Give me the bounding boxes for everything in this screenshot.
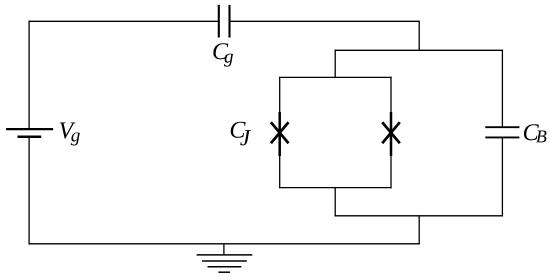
capacitor Cg (gate capacitor, two vertical plates in top bus) <box>219 5 230 38</box>
wire: SQUID loop right side <box>390 77 392 187</box>
wire: middle box right side lower (from C_B bottom plate) <box>501 138 503 216</box>
josephson junction J2 (right, thick electrode segment) <box>390 112 393 156</box>
label Cg <box>213 43 233 66</box>
wire: middle box top side <box>335 49 502 51</box>
wire: stub from middle box top down to SQUID loop top <box>334 50 336 77</box>
wire: left rail upper (top corner down to battery + plate) <box>28 21 30 128</box>
josephson junction J1 (left, thick electrode segment) <box>278 112 281 156</box>
label CB <box>524 124 547 142</box>
label Vg <box>60 122 80 145</box>
wire: SQUID loop left side <box>279 77 281 187</box>
capacitor CB (two horizontal plates in middle box right side) <box>485 127 519 137</box>
wire: top bus right segment (C_g right plate to right drop) <box>230 20 419 22</box>
josephson junction J2 cross <box>382 122 400 143</box>
battery Vg (voltage source, long plate over short plate) <box>6 129 53 137</box>
ground symbol stub <box>223 244 225 255</box>
wire: middle box right side upper (to C_B top plate) <box>501 50 503 126</box>
wire: left rail lower (battery - plate down to bottom corner) <box>28 138 30 244</box>
wire: right drop upper (top bus down to middle box top) <box>418 21 420 50</box>
wire: right drop lower (middle box bottom to bottom bus) <box>418 216 420 244</box>
josephson junction J1 cross <box>271 122 289 143</box>
wire: SQUID loop top side <box>280 76 391 78</box>
wire: middle box bottom side <box>335 215 502 217</box>
wire: stub from SQUID loop bottom down to middle box bottom <box>334 188 336 216</box>
label CJ <box>231 122 251 146</box>
ground symbol bars <box>197 255 253 272</box>
wire: SQUID loop bottom side <box>280 187 391 189</box>
wire: top bus left segment (from V_g top corner to C_g left plate) <box>29 20 218 22</box>
wire: bottom bus (left corner to right bottom drop) <box>29 243 419 245</box>
